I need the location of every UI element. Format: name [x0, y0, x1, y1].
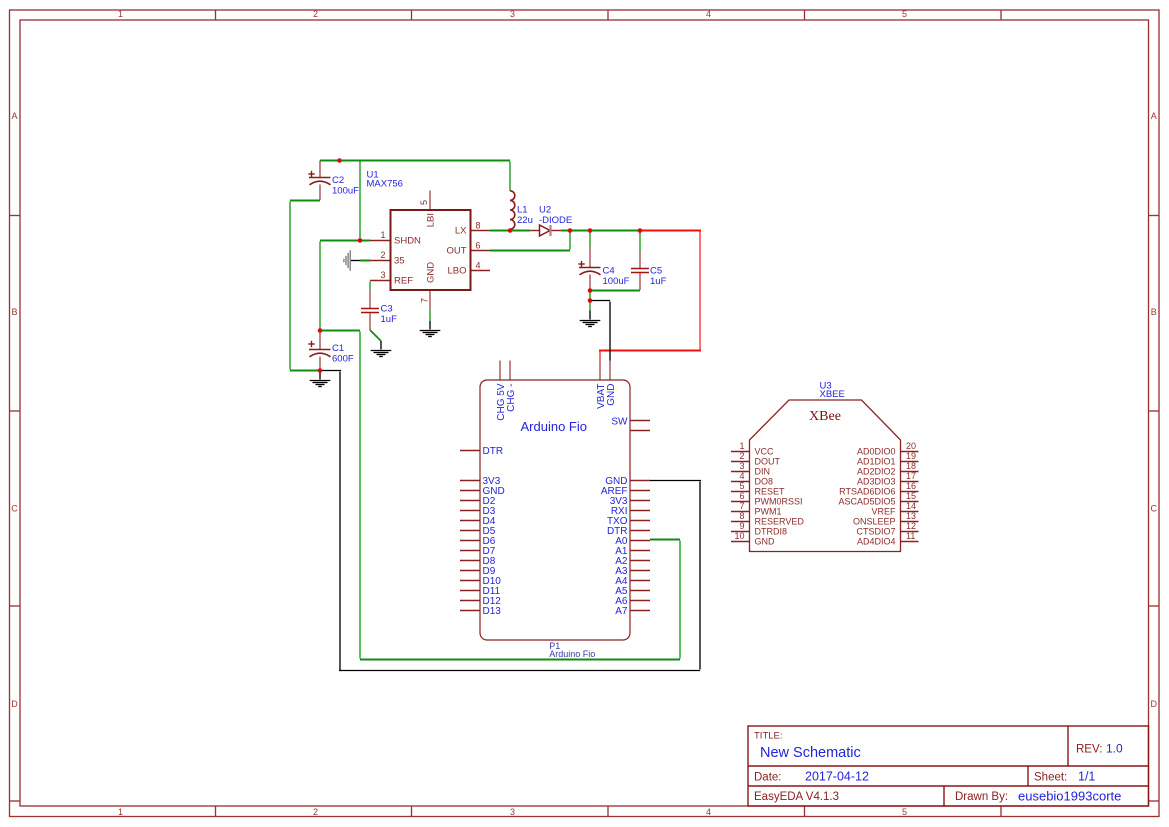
svg-text:XBEE: XBEE	[820, 389, 845, 400]
svg-text:7: 7	[739, 501, 744, 511]
svg-text:11: 11	[906, 531, 915, 541]
svg-text:Date:: Date:	[754, 772, 782, 784]
svg-text:RESERVED: RESERVED	[755, 517, 805, 527]
svg-text:MAX756: MAX756	[367, 178, 403, 189]
svg-text:2: 2	[313, 807, 318, 817]
svg-text:RTSAD6DIO6: RTSAD6DIO6	[839, 487, 895, 497]
svg-text:AD2DIO2: AD2DIO2	[857, 467, 896, 477]
svg-text:5: 5	[902, 9, 907, 19]
svg-text:1: 1	[118, 807, 123, 817]
svg-text:PWM0RSSI: PWM0RSSI	[755, 497, 803, 507]
svg-text:6: 6	[476, 241, 481, 251]
svg-text:C1: C1	[332, 343, 344, 354]
svg-text:5: 5	[419, 200, 429, 205]
svg-text:GND: GND	[606, 384, 617, 406]
svg-text:eusebio1993corte: eusebio1993corte	[1018, 789, 1121, 804]
svg-text:1: 1	[118, 9, 123, 19]
svg-text:22u: 22u	[517, 215, 533, 226]
svg-text:8: 8	[739, 511, 744, 521]
svg-text:8: 8	[476, 221, 481, 231]
svg-text:4: 4	[739, 471, 744, 481]
svg-text:5: 5	[902, 807, 907, 817]
svg-text:OUT: OUT	[446, 246, 466, 257]
svg-text:C2: C2	[332, 175, 344, 186]
svg-text:2: 2	[380, 250, 385, 260]
svg-text:Arduino Fio: Arduino Fio	[549, 649, 595, 659]
svg-text:REF: REF	[394, 276, 413, 287]
svg-text:4: 4	[476, 261, 481, 271]
svg-text:CTSDIO7: CTSDIO7	[856, 527, 895, 537]
svg-text:1uF: 1uF	[381, 314, 398, 325]
svg-text:B: B	[11, 307, 17, 317]
svg-text:DO8: DO8	[755, 477, 774, 487]
svg-text:PWM1: PWM1	[755, 507, 782, 517]
svg-text:CHG -: CHG -	[506, 384, 517, 412]
svg-text:EasyEDA V4.1.3: EasyEDA V4.1.3	[754, 791, 839, 803]
svg-text:5: 5	[739, 481, 744, 491]
svg-text:Drawn By:: Drawn By:	[955, 791, 1008, 803]
svg-text:100uF: 100uF	[332, 186, 359, 197]
svg-text:16: 16	[906, 481, 916, 491]
svg-text:AD0DIO0: AD0DIO0	[857, 447, 896, 457]
svg-text:AD3DIO3: AD3DIO3	[857, 477, 896, 487]
svg-text:REV:: REV:	[1076, 744, 1102, 756]
svg-text:17: 17	[906, 471, 916, 481]
svg-text:1: 1	[739, 441, 744, 451]
svg-text:RESET: RESET	[755, 487, 786, 497]
svg-text:SHDN: SHDN	[394, 236, 421, 247]
svg-text:C4: C4	[603, 266, 615, 277]
svg-text:2017-04-12: 2017-04-12	[805, 770, 869, 784]
svg-text:A: A	[1151, 111, 1157, 121]
svg-text:10: 10	[734, 531, 744, 541]
svg-text:1uF: 1uF	[650, 276, 667, 287]
svg-text:12: 12	[906, 521, 916, 531]
svg-text:2: 2	[739, 451, 744, 461]
svg-text:DOUT: DOUT	[755, 457, 781, 467]
svg-text:9: 9	[739, 521, 744, 531]
svg-text:GND: GND	[755, 537, 776, 547]
svg-text:VREF: VREF	[871, 507, 896, 517]
svg-text:D13: D13	[483, 606, 502, 617]
svg-text:100uF: 100uF	[603, 276, 630, 287]
svg-text:2: 2	[313, 9, 318, 19]
svg-text:GND: GND	[426, 262, 437, 283]
svg-text:35: 35	[394, 256, 405, 267]
svg-text:3: 3	[510, 9, 515, 19]
svg-text:AD1DIO1: AD1DIO1	[857, 457, 896, 467]
svg-text:DTR: DTR	[483, 446, 504, 457]
svg-text:AD4DIO4: AD4DIO4	[857, 537, 896, 547]
svg-text:3: 3	[380, 270, 385, 280]
svg-text:C: C	[1151, 504, 1158, 514]
svg-text:VCC: VCC	[755, 447, 775, 457]
svg-text:20: 20	[906, 441, 916, 451]
svg-text:C5: C5	[650, 266, 662, 277]
svg-text:LBI: LBI	[426, 213, 437, 227]
svg-text:LBO: LBO	[447, 266, 466, 277]
svg-text:15: 15	[906, 491, 916, 501]
svg-text:XBee: XBee	[809, 409, 841, 424]
svg-text:A7: A7	[615, 606, 628, 617]
svg-text:18: 18	[906, 461, 916, 471]
svg-text:ONSLEEP: ONSLEEP	[853, 517, 896, 527]
svg-text:4: 4	[706, 807, 711, 817]
svg-text:D: D	[1151, 699, 1158, 709]
svg-text:New Schematic: New Schematic	[760, 745, 861, 761]
svg-text:14: 14	[906, 501, 916, 511]
svg-text:A: A	[11, 111, 17, 121]
svg-text:3: 3	[739, 461, 744, 471]
svg-text:L1: L1	[517, 205, 528, 216]
svg-text:LX: LX	[455, 226, 467, 237]
svg-text:7: 7	[420, 298, 430, 303]
svg-text:Arduino Fio: Arduino Fio	[521, 419, 587, 434]
svg-text:ASCAD5DIO5: ASCAD5DIO5	[838, 497, 895, 507]
svg-text:4: 4	[706, 9, 711, 19]
svg-text:B: B	[1151, 307, 1157, 317]
svg-text:DTRDI8: DTRDI8	[755, 527, 788, 537]
svg-text:Sheet:: Sheet:	[1034, 772, 1067, 784]
svg-text:D: D	[11, 699, 18, 709]
svg-text:3: 3	[510, 807, 515, 817]
svg-text:1.0: 1.0	[1106, 742, 1123, 756]
svg-text:19: 19	[906, 451, 916, 461]
svg-text:6: 6	[739, 491, 744, 501]
svg-text:U2: U2	[539, 205, 551, 216]
svg-text:13: 13	[906, 511, 916, 521]
svg-text:TITLE:: TITLE:	[754, 731, 783, 742]
svg-text:SW: SW	[611, 416, 628, 427]
svg-text:C: C	[11, 504, 18, 514]
svg-text:-DIODE: -DIODE	[539, 215, 572, 226]
svg-text:C3: C3	[381, 304, 393, 315]
svg-text:1: 1	[380, 230, 385, 240]
svg-text:DIN: DIN	[755, 467, 771, 477]
svg-text:1/1: 1/1	[1078, 770, 1095, 784]
svg-text:600F: 600F	[332, 354, 354, 365]
